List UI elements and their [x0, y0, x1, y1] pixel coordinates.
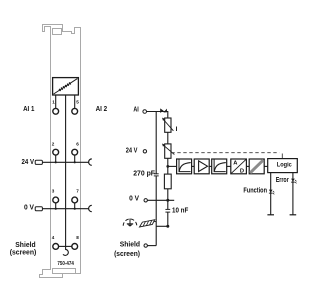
module outline top bus recess: [53, 29, 62, 35]
shield braid symbol: [140, 220, 155, 227]
svg-text:7: 7: [76, 189, 79, 194]
svg-text:5: 5: [76, 99, 79, 104]
Function LED bar terminal: [267, 214, 274, 216]
pin 5 terminal: [72, 108, 78, 114]
Function LED symbol: [269, 190, 274, 195]
function symbol box: [53, 78, 79, 95]
24V terminal right: [143, 150, 146, 153]
Error LED bar terminal: [290, 214, 297, 216]
pin 6 stem: [74, 155, 76, 162]
0V rail wire: [43, 208, 89, 210]
svg-text:0 V: 0 V: [24, 203, 34, 212]
wire V1 to V2: [167, 132, 169, 144]
varistor V2 box: [165, 144, 171, 158]
shield wire right: [148, 245, 157, 247]
wire center leg down: [65, 95, 67, 246]
pin 2 terminal: [53, 149, 59, 155]
wire junction to box row: [168, 165, 177, 167]
pin 7 stem: [74, 203, 76, 209]
svg-text:0 V: 0 V: [129, 194, 139, 203]
capacitor C1 270pF: [153, 174, 160, 175]
pin 3 stem: [55, 203, 57, 209]
module outline bottom rail recess: [53, 269, 76, 274]
wire amp to F2: [209, 165, 212, 167]
filter box F2: [212, 159, 227, 174]
wire box leg to pin5: [74, 95, 76, 108]
svg-text:I: I: [176, 126, 178, 133]
AI wire: [147, 112, 168, 119]
module outline left profile: [40, 25, 81, 278]
shield hook wire: [63, 246, 68, 255]
junction dot shield tie: [166, 225, 169, 228]
junction to filter chain: [166, 165, 169, 168]
junction pin3: [55, 208, 57, 210]
filter box F1: [177, 159, 192, 174]
svg-text:AI 1: AI 1: [23, 104, 34, 113]
Function LED line: [270, 173, 272, 215]
wire F1 to amp: [192, 165, 195, 167]
wire AD to isolation: [246, 165, 249, 167]
AI terminal: [143, 110, 147, 114]
svg-text:(screen): (screen): [10, 247, 37, 256]
pin 6 terminal: [72, 149, 78, 155]
resistor R1 box: [164, 174, 171, 189]
svg-text:Logic: Logic: [277, 162, 292, 169]
svg-text:(screen): (screen): [114, 249, 140, 258]
junction pin6: [74, 161, 76, 163]
svg-text:4: 4: [52, 235, 55, 240]
svg-text:1: 1: [52, 99, 55, 104]
0V plug: [35, 207, 42, 211]
svg-text:Function: Function: [243, 185, 267, 194]
isolation box: [249, 159, 264, 174]
isolation dashed line: [171, 152, 279, 154]
wire F2 to AD: [227, 165, 231, 167]
24V fork contact: [89, 159, 92, 165]
pin 4 terminal: [53, 244, 59, 250]
pin 1 terminal: [53, 108, 59, 114]
amplifier box: [194, 159, 209, 174]
wire V2 down to R1: [167, 158, 169, 174]
svg-text:AI: AI: [133, 104, 138, 113]
Error LED symbol: [291, 179, 296, 184]
svg-text:AI 2: AI 2: [96, 104, 108, 113]
junction pin2: [55, 161, 57, 163]
branch wire down from AI: [155, 112, 157, 246]
0V fork contact: [89, 205, 92, 211]
wire box leg to pin1: [55, 95, 57, 108]
function symbol hatch ticks: [59, 83, 71, 91]
svg-text:24 V: 24 V: [22, 157, 35, 166]
0V terminal right: [144, 199, 147, 202]
varistor V2 arrow: [163, 145, 174, 154]
svg-text:3: 3: [52, 189, 55, 194]
function symbol diagonal: [54, 79, 78, 94]
capacitor C2 10nF: [165, 210, 171, 212]
svg-text:270 pF: 270 pF: [133, 168, 155, 177]
svg-text:750-474: 750-474: [57, 261, 74, 267]
svg-text:10 nF: 10 nF: [172, 205, 189, 214]
pin 3 terminal: [53, 197, 59, 203]
Logic box: [268, 159, 298, 173]
shield terminal right: [144, 244, 147, 247]
pin 8 terminal: [72, 244, 78, 250]
wire 0V dot down to C2: [167, 200, 169, 209]
shield link pins 4-8: [59, 245, 72, 247]
svg-text:D: D: [240, 168, 244, 174]
24V rail wire: [43, 161, 89, 163]
24V plug: [35, 160, 42, 164]
wire R1 to 0V rail: [167, 189, 169, 201]
wire C2 down to shield tie: [167, 212, 169, 226]
varistor V1 arrow: [163, 120, 173, 131]
varistor V1 box: [165, 118, 171, 132]
functional earth symbol: [123, 219, 137, 226]
pin 2 stem: [55, 155, 57, 162]
svg-text:Shield: Shield: [120, 240, 141, 249]
svg-text:Error: Error: [276, 175, 289, 184]
shield tie wire: [156, 225, 168, 227]
A/D converter box: [231, 159, 247, 174]
Error LED line: [292, 173, 294, 215]
svg-text:24 V: 24 V: [126, 146, 138, 155]
svg-text:8: 8: [76, 235, 79, 240]
wire isolation to Logic: [264, 165, 268, 167]
svg-text:2: 2: [52, 141, 55, 146]
pin 7 terminal: [72, 197, 78, 203]
junction dot 0V: [166, 199, 169, 202]
surge suppressor bowtie: [160, 108, 167, 113]
svg-text:6: 6: [76, 141, 79, 146]
junction pin7: [74, 208, 76, 210]
0V rail right wire: [148, 199, 175, 201]
